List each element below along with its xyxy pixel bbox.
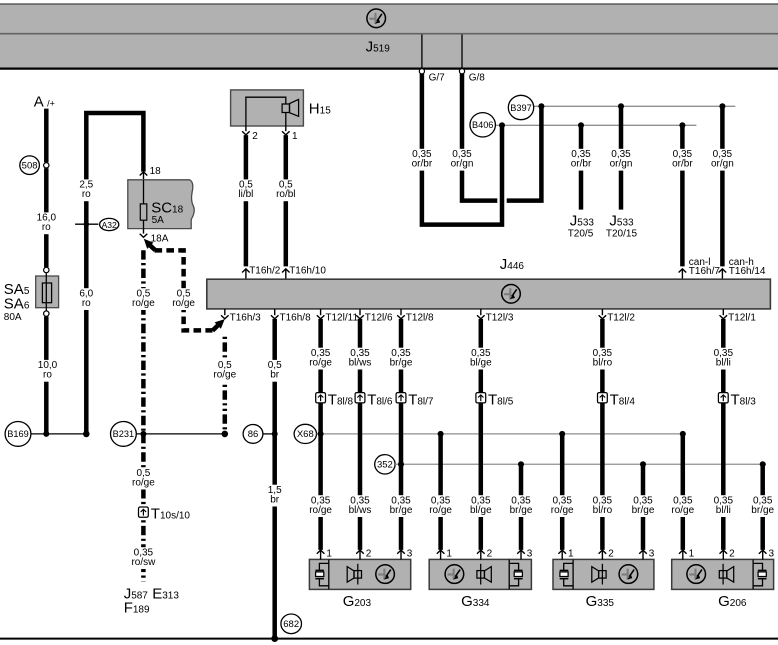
wire label 0,35 or/br G/7	[407, 149, 436, 171]
wire label 0,35 ro/ge stub	[426, 495, 455, 517]
label SC18 5A	[151, 200, 183, 227]
node 682	[281, 614, 302, 634]
wire label 0,35 br/ge lower	[386, 495, 415, 517]
control-unit symbol in J519	[367, 9, 386, 28]
wire label 0,5 ro/ge dash-dot upper	[129, 288, 158, 310]
wire 0,35 ro/ge lower	[318, 403, 323, 550]
wire can-h	[720, 106, 725, 266]
sounder G335 box	[553, 559, 654, 589]
wire label 0,5 li/bl	[231, 179, 260, 201]
connector T8l/4	[598, 393, 608, 403]
svg-text:2: 2	[487, 548, 493, 559]
wire 0,35 bl/li upper	[721, 319, 726, 393]
terminal T12l/1	[720, 309, 757, 323]
wire label 0,35 bl/li lower	[709, 495, 738, 517]
label can-h T16h/14	[729, 257, 766, 277]
svg-text:or/br: or/br	[571, 159, 592, 170]
control-unit symbol in J446	[502, 285, 521, 304]
junction dot G/7 on B406 line	[499, 122, 505, 128]
stub wire 0,35 br/ge from 352 line	[641, 464, 646, 550]
svg-text:li/bl: li/bl	[238, 189, 253, 200]
wire 0,35 br/ge lower	[399, 403, 404, 550]
terminal arrow H15 pin 2	[242, 126, 258, 142]
node X68	[294, 424, 316, 443]
wire label 0,35 ro/ge lower	[306, 495, 335, 517]
connector T10s/10	[139, 507, 149, 517]
terminal T16h/3	[221, 309, 261, 323]
piezo symbol in G335	[560, 560, 573, 590]
speaker symbol in G206	[719, 564, 733, 585]
pin 2 arrow	[599, 548, 615, 559]
wire A 10,0 ro segment	[44, 316, 49, 434]
horn H15 box	[231, 90, 304, 126]
pin 1 arrow	[679, 548, 695, 559]
svg-text:A /+: A /+	[34, 94, 55, 111]
junction dot T12l/8 wire on 352 line	[398, 461, 404, 467]
svg-text:18A: 18A	[151, 233, 169, 244]
wire label 6,0 ro	[77, 288, 96, 310]
wire 0,35 bl/ro lower	[600, 403, 605, 550]
junction dot 6,0 ro wire end	[83, 431, 90, 438]
pin 1 arrow	[317, 548, 333, 559]
svg-text:ro/ge: ro/ge	[132, 298, 155, 309]
svg-text:ro/ge: ro/ge	[309, 358, 332, 369]
svg-text:1: 1	[446, 548, 452, 559]
wire label 0,35 or/gn T20/15	[606, 149, 635, 171]
wire label 0,35 br/ge stub	[506, 495, 535, 517]
wire to J533 T20/5	[579, 125, 584, 209]
wire label 0,5 ro/ge lower	[129, 468, 158, 490]
svg-text:br/ge: br/ge	[751, 505, 774, 516]
node line B231	[136, 433, 225, 435]
label J587 E313	[124, 585, 180, 602]
junction dot can-l wire	[679, 122, 685, 128]
terminal T16h/10	[282, 266, 326, 280]
pin 1 arrow	[437, 548, 453, 559]
svg-text:3: 3	[527, 548, 533, 559]
control-unit symbol in G335	[619, 565, 638, 584]
J519 bar top border	[0, 3, 778, 5]
svg-text:2: 2	[608, 548, 614, 559]
node above SA fuse	[44, 267, 49, 272]
junction dot G/8 on B397 line	[538, 103, 544, 109]
junction dot A wire B169 line	[43, 431, 49, 437]
stub wire 0,35 br/ge from 352 line	[760, 464, 765, 550]
svg-text:G206: G206	[718, 593, 747, 610]
terminal can-h T16h/14	[719, 269, 727, 279]
wire A ro segment 1	[44, 109, 49, 163]
svg-text:ro/bl: ro/bl	[276, 189, 295, 200]
svg-text:682: 682	[283, 619, 299, 630]
stub wire 0,35 ro/ge from X68 line	[560, 434, 565, 550]
wire label 0,5 ro/ge right dash-dot	[210, 360, 239, 382]
wire 0,35 bl/ws upper	[358, 319, 363, 393]
svg-text:B231: B231	[113, 429, 134, 439]
svg-text:or/gn: or/gn	[451, 159, 474, 170]
junction dot on 352 line	[760, 461, 766, 467]
piezo symbol in G203	[315, 560, 328, 590]
svg-text:G335: G335	[586, 593, 615, 610]
junction dot br wire 86 line	[272, 431, 278, 437]
wire label 0,5 ro/ge dashed	[169, 288, 198, 310]
node 352	[375, 455, 395, 474]
svg-text:or/br: or/br	[412, 159, 433, 170]
junction dot on 352 line	[640, 461, 646, 467]
wire label 0,35 bl/li upper	[709, 348, 738, 370]
junction dot on X68 line	[438, 431, 444, 437]
svg-text:T8l/6: T8l/6	[367, 391, 393, 408]
wire 0,35 bl/ge lower	[479, 403, 484, 550]
wire 0,5 li/bl	[244, 135, 249, 266]
control unit J519 bar	[0, 4, 778, 69]
wire label 16,0 ro	[34, 212, 58, 234]
junction dot T12l/11 wire on X68 line	[318, 431, 324, 437]
svg-text:T16h/14: T16h/14	[729, 266, 766, 277]
node line B397	[534, 105, 736, 107]
terminal circle G/8	[459, 69, 464, 74]
wire label 0,5 br	[265, 360, 284, 382]
stub wire 0,35 br/ge from 352 line	[519, 464, 524, 550]
control unit J446 bar	[207, 279, 771, 309]
wire label 10,0 ro	[35, 360, 59, 382]
wire G/8 or/gn segment 2	[507, 106, 542, 200]
connector T8l/3	[718, 393, 728, 403]
svg-text:T20/5: T20/5	[568, 228, 594, 239]
node line X68	[317, 433, 687, 435]
pin 3 arrow	[639, 548, 655, 559]
svg-text:ro/ge: ro/ge	[132, 478, 155, 489]
svg-text:bl/li: bl/li	[716, 505, 731, 516]
wire 0,5 br	[272, 319, 277, 629]
lead G/8 inside bar	[461, 35, 463, 69]
connector T8l/7	[396, 393, 406, 403]
svg-text:ro/ge: ro/ge	[429, 505, 452, 516]
speaker symbol in G335	[592, 564, 606, 585]
wire label 0,35 or/br can-l	[668, 149, 697, 171]
svg-text:T16h/7: T16h/7	[689, 266, 721, 277]
svg-text:br: br	[270, 495, 280, 506]
wire G/8 or/gn segment 1	[462, 74, 497, 201]
wire 0,5 ro/ge dash-dot from T16h/3 down	[223, 337, 228, 434]
control-unit symbol in G334	[445, 565, 464, 584]
wire can-l	[680, 125, 685, 266]
control-unit symbol in G206	[687, 565, 706, 584]
svg-text:5A: 5A	[152, 215, 165, 226]
svg-text:X68: X68	[297, 429, 314, 440]
ground rail	[0, 638, 778, 640]
sounder G206 box	[672, 559, 774, 589]
piezo symbol in G334	[509, 560, 522, 590]
wire label 0,35 br/ge stub	[748, 495, 777, 517]
svg-text:2: 2	[366, 548, 372, 559]
svg-text:352: 352	[377, 460, 393, 471]
svg-text:1: 1	[326, 548, 332, 559]
node on A wire at 508	[44, 163, 49, 168]
wire 0,5 ro/ge dash-dot from 18A down	[141, 250, 146, 434]
svg-text:G203: G203	[343, 593, 372, 610]
svg-text:or/gn: or/gn	[711, 159, 734, 170]
svg-text:3: 3	[769, 548, 775, 559]
node line B169	[31, 433, 86, 435]
svg-text:T10s/10: T10s/10	[151, 506, 191, 523]
svg-text:T8l/3: T8l/3	[731, 391, 757, 408]
svg-text:T12l/6: T12l/6	[365, 312, 393, 323]
svg-text:bl/ro: bl/ro	[593, 505, 613, 516]
speaker symbol in G334	[477, 564, 491, 585]
connector T8l/6	[355, 393, 365, 403]
node B169	[5, 422, 31, 447]
node line 86	[263, 433, 275, 435]
svg-text:bl/ro: bl/ro	[593, 358, 613, 369]
pin 1 arrow	[558, 548, 574, 559]
svg-text:T16h/3: T16h/3	[230, 312, 262, 323]
svg-text:J533: J533	[570, 213, 595, 230]
svg-text:18: 18	[150, 166, 162, 177]
svg-text:T16h/2: T16h/2	[249, 266, 281, 277]
wire 0,35 ro/ge upper	[318, 319, 323, 393]
wire 0,35 bl/ws lower	[358, 403, 363, 550]
wire 0,35 bl/ro upper	[600, 319, 605, 393]
wire label 0,35 bl/ws upper	[345, 348, 374, 370]
label J533 T20/15	[606, 213, 638, 240]
node B231	[111, 422, 137, 447]
wire 0,35 br/ge upper	[399, 319, 404, 393]
node line A32	[75, 223, 98, 225]
svg-text:br/ge: br/ge	[510, 505, 533, 516]
svg-text:T20/15: T20/15	[606, 228, 638, 239]
svg-text:ro/ge: ro/ge	[172, 298, 195, 309]
svg-text:T8l/8: T8l/8	[328, 391, 354, 408]
wire label 0,35 bl/ws lower	[345, 495, 374, 517]
stub wire 0,35 ro/ge from X68 line	[681, 434, 686, 550]
svg-text:ro: ro	[82, 298, 91, 309]
pin 3 arrow	[759, 548, 775, 559]
wire 2,5 ro / 6,0 ro	[86, 113, 143, 434]
wire label 0,35 or/gn can-h	[708, 149, 737, 171]
pin 3 arrow	[517, 548, 533, 559]
junction dot on X68 line	[680, 431, 686, 437]
svg-text:H15: H15	[309, 100, 331, 117]
wire label 0,35 bl/ro upper	[588, 348, 617, 370]
terminal T16h/8	[271, 309, 311, 323]
wire 0,35 bl/li lower	[721, 403, 726, 550]
wire label 0,35 br/ge upper	[386, 348, 415, 370]
sounder G334 box	[429, 559, 531, 589]
node line 352	[395, 463, 766, 465]
terminal T12l/8	[397, 309, 434, 323]
wire label 0,35 bl/ro lower	[588, 495, 617, 517]
pin 2 arrow	[720, 548, 736, 559]
wire label 0,5 ro/bl	[271, 179, 300, 201]
svg-text:SA6: SA6	[4, 295, 30, 312]
junction dot br wire to ground rail	[271, 635, 278, 642]
svg-text:J533: J533	[609, 213, 634, 230]
node B406	[470, 113, 495, 137]
svg-text:ro/ge: ro/ge	[309, 505, 332, 516]
svg-text:B169: B169	[7, 429, 28, 439]
node 508	[20, 156, 40, 175]
svg-text:T12l/11: T12l/11	[325, 312, 358, 323]
lead G/7 inside bar	[421, 35, 423, 69]
svg-text:br: br	[270, 370, 280, 381]
label SA5 SA6 80A	[4, 281, 30, 323]
svg-text:or/br: or/br	[672, 159, 693, 170]
svg-text:or/gn: or/gn	[610, 159, 633, 170]
label J533 T20/5	[568, 213, 595, 240]
svg-text:1: 1	[568, 548, 574, 559]
node B397	[508, 95, 533, 119]
pin 2 arrow	[477, 548, 493, 559]
pin 3 arrow	[397, 548, 413, 559]
svg-text:br/ge: br/ge	[632, 505, 655, 516]
piezo symbol in G206	[753, 560, 766, 590]
stub wire 0,35 ro/ge from X68 line	[438, 434, 443, 550]
svg-text:3: 3	[407, 548, 413, 559]
speaker symbol in H15	[290, 99, 299, 116]
svg-text:bl/ws: bl/ws	[349, 505, 372, 516]
svg-text:ro/ge: ro/ge	[671, 505, 694, 516]
junction dot dash-dot wire B231 line	[140, 431, 146, 437]
label can-l T16h/7	[689, 257, 721, 277]
svg-text:bl/ge: bl/ge	[470, 505, 492, 516]
svg-text:T8l/5: T8l/5	[488, 391, 514, 408]
svg-text:2: 2	[729, 548, 735, 559]
svg-text:ro: ro	[43, 370, 52, 381]
svg-text:B406: B406	[472, 120, 493, 130]
terminal T12l/6	[356, 309, 393, 323]
svg-text:br/ge: br/ge	[390, 505, 413, 516]
svg-text:A32: A32	[102, 220, 117, 230]
sounder G203 box	[309, 559, 410, 589]
svg-text:bl/ws: bl/ws	[349, 358, 372, 369]
node 86	[243, 425, 263, 444]
svg-text:86: 86	[248, 429, 259, 440]
svg-text:bl/ge: bl/ge	[470, 358, 492, 369]
svg-text:T12l/2: T12l/2	[607, 312, 635, 323]
terminal can-l T16h/7	[679, 269, 687, 279]
wire 0,5 ro/ge dash-dot lower	[141, 434, 146, 582]
terminal T12l/3	[477, 309, 514, 323]
svg-text:F189: F189	[124, 600, 150, 617]
terminal arrow 18A below SC18	[140, 229, 169, 245]
wire 0,35 bl/ge upper	[479, 319, 484, 393]
wire to J533 T20/15	[619, 106, 624, 209]
wire label 0,35 ro/ge upper	[306, 348, 335, 370]
J519 bar bottom border	[0, 67, 778, 69]
junction dot can-h wire	[719, 103, 725, 109]
svg-text:br/ge: br/ge	[390, 358, 413, 369]
connector T8l/8	[316, 393, 326, 403]
fuse SC18 box	[128, 180, 194, 229]
svg-text:T8l/7: T8l/7	[408, 391, 434, 408]
terminal circle G/7	[419, 69, 424, 74]
svg-text:3: 3	[649, 548, 655, 559]
speaker symbol in G203	[347, 564, 361, 585]
svg-text:J446: J446	[500, 256, 525, 273]
junction dot right dash-dot wire end	[222, 431, 229, 438]
wire 0,5 ro/bl	[284, 135, 289, 266]
terminal T12l/11	[317, 309, 359, 323]
svg-text:ro: ro	[82, 189, 91, 200]
svg-text:T8l/4: T8l/4	[610, 391, 636, 408]
svg-text:508: 508	[22, 161, 38, 172]
wire label 0,35 or/gn G/8	[447, 149, 476, 171]
svg-text:T16h/10: T16h/10	[289, 266, 326, 277]
terminal arrow 18 into SC18	[140, 166, 161, 180]
wire G/7 or/br	[422, 74, 502, 225]
svg-text:G/8: G/8	[469, 72, 486, 83]
wire label 0,35 bl/ge lower	[466, 495, 495, 517]
wire label 0,35 ro/sw	[129, 547, 158, 569]
svg-text:2: 2	[252, 131, 258, 142]
svg-text:ro/sw: ro/sw	[131, 557, 156, 568]
svg-text:T16h/8: T16h/8	[280, 312, 312, 323]
svg-text:E313: E313	[152, 585, 179, 602]
terminal T12l/2	[599, 309, 636, 323]
svg-text:G334: G334	[461, 593, 490, 610]
terminal arrow H15 pin 1	[282, 126, 298, 142]
wire label 0,35 bl/ge upper	[466, 348, 495, 370]
node line B406	[495, 124, 696, 126]
wire 0,5 ro/ge dashed from 18A	[144, 239, 225, 331]
svg-text:B397: B397	[510, 103, 531, 113]
svg-text:1: 1	[292, 131, 298, 142]
svg-text:ro: ro	[42, 222, 51, 233]
svg-text:1: 1	[689, 548, 695, 559]
wire label 0,35 ro/ge stub	[548, 495, 577, 517]
fuse box SA5 SA6	[36, 273, 59, 311]
wire label 0,35 ro/ge stub	[668, 495, 697, 517]
svg-text:T12l/8: T12l/8	[406, 312, 434, 323]
junction dot on X68 line	[559, 431, 565, 437]
svg-text:ro/ge: ro/ge	[551, 505, 574, 516]
wire A 16,0 ro segment	[44, 168, 49, 267]
J519 bar divider	[0, 33, 778, 35]
wire label 1,5 br	[265, 485, 284, 507]
svg-text:bl/li: bl/li	[716, 358, 731, 369]
wire label 0,35 or/br T20/5	[566, 149, 595, 171]
junction dot T20/15 wire	[618, 103, 624, 109]
pin 2 arrow	[356, 548, 372, 559]
svg-text:T12l/3: T12l/3	[486, 312, 514, 323]
svg-text:ro/ge: ro/ge	[213, 370, 236, 381]
wire label 0,35 br/ge stub	[628, 495, 657, 517]
svg-text:T12l/1: T12l/1	[728, 312, 756, 323]
node below SA fuse	[44, 311, 49, 316]
terminal T16h/2	[242, 266, 281, 280]
svg-text:80A: 80A	[4, 312, 22, 323]
connector T8l/5	[476, 393, 486, 403]
node A32	[100, 218, 119, 230]
junction dot T20/5 wire	[578, 122, 584, 128]
wire label 2,5 ro	[77, 179, 96, 201]
junction dot on 352 line	[518, 461, 524, 467]
control-unit symbol in G203	[376, 565, 395, 584]
junction dot A32	[84, 222, 89, 227]
svg-text:G/7: G/7	[429, 72, 446, 83]
